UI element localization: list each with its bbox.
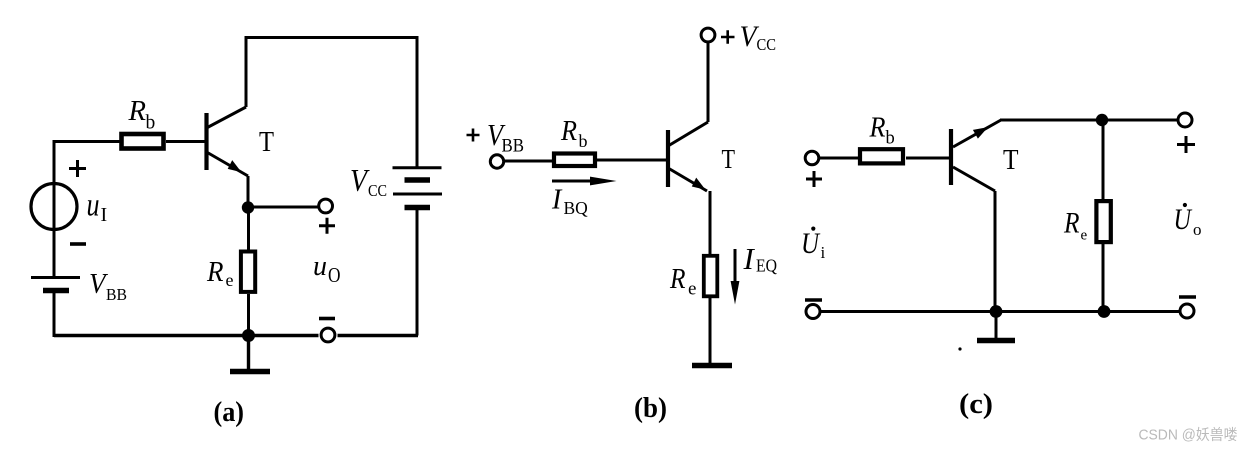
label U_i (input voltage) (801, 227, 826, 263)
resistor Rb (a) (122, 134, 164, 149)
svg-text:I: I (101, 204, 108, 226)
transistor T (b) (668, 122, 708, 191)
resistor Re (a) (241, 252, 255, 292)
ground (a) stub (247, 336, 250, 370)
svg-text:BB: BB (502, 136, 525, 157)
label V_CC (a) (350, 162, 387, 200)
label - (output a) (319, 317, 335, 321)
svg-text:b: b (146, 113, 156, 134)
terminal: output - circle on bottom rail (321, 328, 335, 342)
svg-text:CC: CC (757, 35, 777, 54)
battery V_CC plate long 2 (393, 193, 442, 196)
terminal: input circle (b) (490, 155, 503, 168)
node: top rail to Re (c) (1096, 114, 1108, 126)
label T (a) (259, 127, 274, 158)
terminal: input circle (c) (805, 151, 819, 165)
battery V_BB short plate (43, 288, 69, 294)
battery V_CC plate long 1 (393, 166, 442, 169)
label R_e (b) (669, 264, 696, 300)
svg-text:R: R (206, 256, 224, 288)
label + (source polarity) (69, 160, 86, 177)
svg-text:EQ: EQ (756, 256, 777, 276)
ground (c) bar (977, 338, 1015, 344)
label R_e (a) (206, 256, 233, 290)
wire: resistor Rb to base (166, 140, 205, 143)
node: emitter output node (a) (242, 201, 254, 213)
svg-text:(b): (b) (634, 393, 667, 424)
wire: right vertical down to battery Vcc (416, 36, 419, 167)
svg-text:o: o (1193, 220, 1202, 239)
terminal: input - circle (c) (806, 305, 820, 319)
wire: left vertical below battery to bottom rail (53, 293, 56, 338)
label T (c) (1003, 144, 1019, 176)
svg-text:T: T (259, 127, 274, 158)
svg-text:e: e (1081, 228, 1088, 244)
label (a) (214, 397, 245, 428)
label - (input c) (805, 298, 822, 302)
svg-text:b: b (579, 131, 588, 151)
svg-text:T: T (1003, 144, 1019, 176)
battery V_CC plate short 1 (405, 177, 431, 183)
wire: top-left horizontal from corner to resistor Rb (53, 140, 121, 143)
node: collector to bottom rail (c) (990, 305, 1003, 318)
svg-text:b: b (886, 129, 895, 149)
label +V_CC (b) (721, 20, 776, 54)
svg-text:R: R (128, 95, 147, 127)
resistor Re (c) (1096, 201, 1110, 242)
svg-text:R: R (869, 112, 886, 144)
label R_b (b) (560, 116, 587, 151)
wire: resistor Rb to base (b) (597, 159, 666, 162)
resistor Re (b) (704, 256, 718, 296)
svg-text:T: T (722, 144, 736, 174)
label U_o (output voltage) (1174, 203, 1202, 239)
wire: top rail (245, 36, 418, 39)
svg-text:BQ: BQ (564, 198, 589, 218)
wire: emitter vertical to node (247, 176, 250, 208)
label - (source polarity) (70, 242, 86, 246)
transistor T (c) (951, 120, 1001, 191)
ground (a) bar (230, 369, 270, 375)
wire: left vertical from top corner through source to battery (53, 142, 56, 278)
wire: node to resistor Re (247, 208, 250, 251)
wire: bottom rail (c) (820, 310, 1180, 313)
label T (b) (722, 144, 736, 174)
label R_b (a) (128, 95, 156, 134)
wire: collector vertical down (c) (994, 191, 997, 312)
svg-text:I: I (551, 185, 563, 216)
svg-text:R: R (669, 264, 685, 295)
svg-text:U: U (801, 227, 821, 260)
wire: resistor Re to ground (b) (709, 298, 712, 364)
svg-text:U: U (1174, 203, 1193, 236)
wire: Re lower vertical (c) (1102, 242, 1105, 312)
svg-text:R: R (560, 116, 577, 147)
svg-text:u: u (313, 250, 327, 282)
node: ground junction (a) (242, 329, 255, 342)
wire: collector vertical to Vcc terminal (b) (707, 42, 710, 122)
terminal: output + circle (a) (319, 199, 333, 213)
svg-text:V: V (350, 162, 370, 198)
label + (output c) (1177, 136, 1195, 153)
svg-text:(a): (a) (214, 397, 245, 428)
wire: output horizontal to terminal (248, 206, 319, 209)
terminal: output - circle (c) (1180, 304, 1194, 318)
svg-text:CSDN @妖兽喽: CSDN @妖兽喽 (1139, 427, 1238, 444)
svg-text:e: e (688, 279, 696, 300)
voltage source u_I circle (31, 184, 77, 230)
label I_BQ (551, 185, 588, 219)
wire: resistor Rb to base (c) (906, 157, 949, 160)
wire: emitter vertical to resistor Re (b) (709, 191, 712, 254)
svg-text:CC: CC (368, 181, 387, 200)
wire: right vertical below battery to bottom rail (416, 210, 419, 336)
wire: input to resistor Rb (c) (819, 157, 858, 160)
resistor Rb (b) (554, 154, 595, 167)
svg-text:BB: BB (106, 285, 127, 304)
label (c) (959, 389, 993, 420)
svg-text:I: I (743, 241, 756, 276)
stray mark (958, 347, 961, 350)
label u_I (87, 188, 108, 227)
wire: Re upper vertical (c) (1102, 120, 1105, 199)
ground (c) stub (995, 312, 998, 339)
wire: bottom rail right segment (338, 334, 419, 337)
label +V_BB (467, 117, 525, 157)
resistor Rb (c) (860, 149, 903, 163)
ground (b) bar (692, 363, 732, 369)
current arrow I_EQ (731, 249, 740, 305)
svg-text:i: i (821, 243, 826, 262)
wire: input to resistor Rb (b) (504, 160, 552, 163)
svg-text:R: R (1063, 207, 1079, 240)
wire: top rail (c) (1000, 119, 1178, 122)
label + (output a) (319, 218, 335, 234)
terminal: output + circle (c) (1178, 113, 1192, 127)
label + (input c) (806, 171, 822, 187)
label R_e (c) (1063, 207, 1087, 244)
svg-text:O: O (328, 263, 341, 287)
wire: bottom rail left segment (54, 334, 319, 337)
watermark CSDN (1139, 427, 1238, 444)
svg-text:(c): (c) (959, 389, 993, 420)
node: Re to bottom rail (c) (1098, 305, 1111, 318)
current arrow I_BQ (552, 177, 617, 186)
label I_EQ (743, 241, 778, 276)
wire: resistor Re to bottom rail (247, 294, 250, 336)
terminal: +V_CC circle (b) (701, 28, 715, 42)
label (b) (634, 393, 667, 424)
battery V_BB long plate (31, 276, 80, 279)
wire: collector vertical up (245, 38, 248, 108)
svg-text:u: u (87, 188, 100, 224)
label R_b (c) (869, 112, 895, 149)
label u_O (313, 250, 341, 287)
transistor T (a) (207, 107, 249, 176)
label V_BB (89, 268, 127, 304)
svg-text:e: e (226, 270, 234, 290)
battery V_CC plate short 2 (405, 205, 431, 211)
label - (output c) (1179, 295, 1196, 299)
